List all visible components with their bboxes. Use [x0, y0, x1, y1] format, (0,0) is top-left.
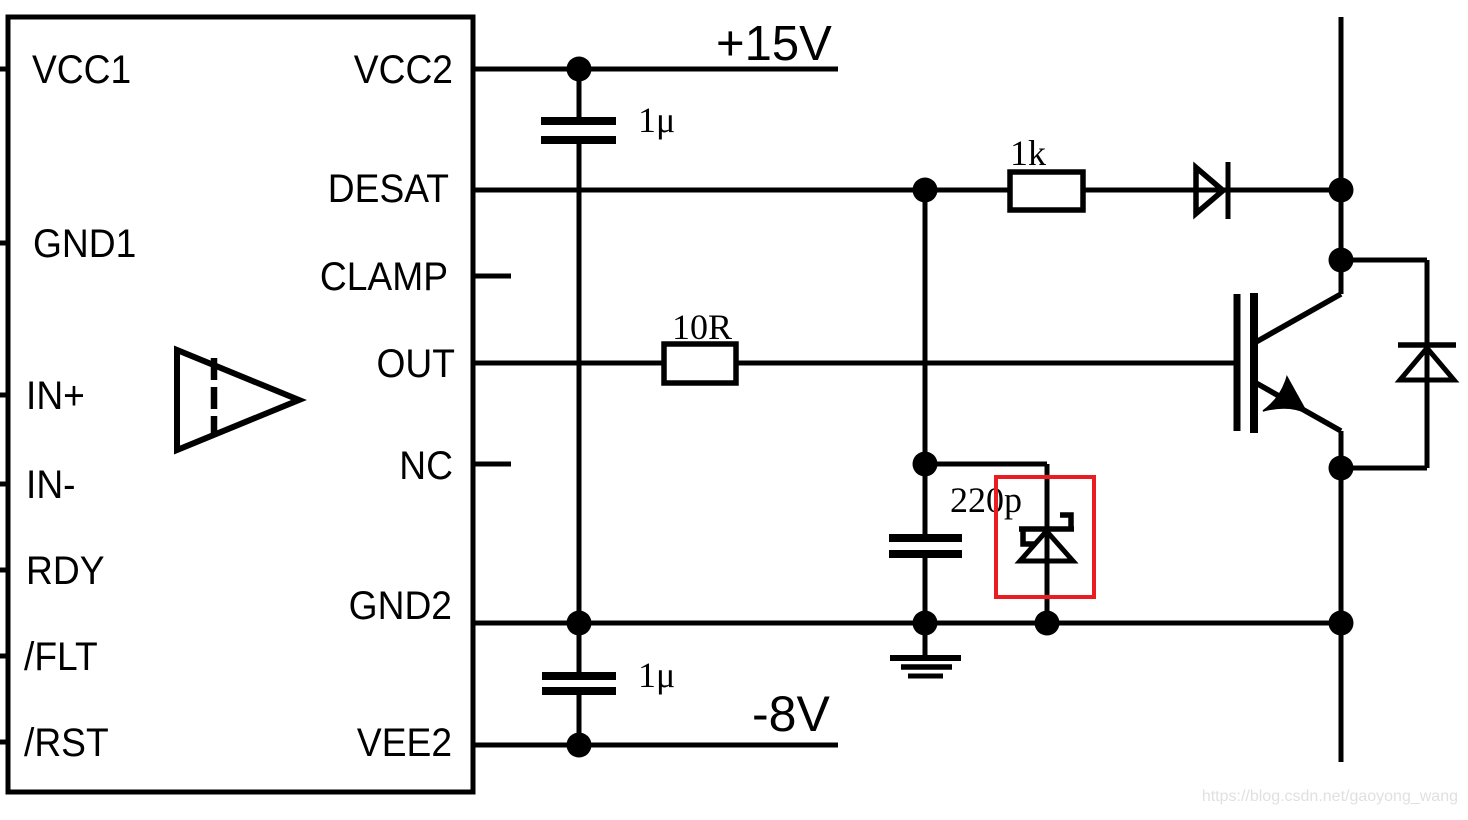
pin stub /FLT — [0, 654, 8, 659]
svg-text:OUT: OUT — [377, 342, 455, 387]
op-amp triangle inside U1 — [177, 350, 299, 450]
svg-text:IN+: IN+ — [26, 374, 85, 419]
pin stub CLAMP — [473, 274, 511, 279]
wire DESAT node down — [923, 190, 928, 464]
pin label GND1 — [33, 222, 136, 267]
pin label VEE2 — [357, 721, 452, 766]
svg-text:GND2: GND2 — [349, 584, 452, 629]
capacitor C2 plates — [889, 538, 962, 554]
svg-text:1k: 1k — [1010, 133, 1046, 173]
net label -8V — [752, 686, 830, 742]
svg-text:GND1: GND1 — [33, 222, 136, 267]
pin label NC — [399, 444, 453, 489]
node dot GND2/C2 — [913, 611, 938, 636]
value label 10R — [672, 307, 732, 347]
wire GND2 rail — [473, 621, 1341, 626]
svg-text:VEE2: VEE2 — [357, 721, 452, 766]
net label +15V — [716, 17, 832, 71]
svg-text:1μ: 1μ — [638, 100, 675, 140]
pin label VCC1 — [32, 48, 131, 93]
zener diode Z1 — [1019, 515, 1074, 561]
svg-text:VCC1: VCC1 — [32, 48, 131, 93]
value label 1k — [1010, 133, 1046, 173]
node dot DESAT diode / collector rail — [1329, 178, 1354, 203]
pin stub VCC1 — [0, 67, 8, 72]
node dot emitter — [1329, 456, 1354, 481]
svg-text:CLAMP: CLAMP — [320, 255, 448, 300]
pin label CLAMP — [320, 255, 448, 300]
pin stub NC — [473, 462, 511, 467]
svg-text:NC: NC — [399, 444, 453, 489]
capacitor C1 plates — [541, 121, 616, 140]
svg-text:10R: 10R — [672, 307, 732, 347]
pin label IN+ — [26, 374, 85, 419]
wire DESAT — [473, 188, 1010, 193]
svg-text:220p: 220p — [950, 480, 1022, 520]
node dot VCC2/C1 junction — [567, 57, 592, 82]
IGBT Q1 — [1237, 293, 1341, 433]
pin stub GND1 — [0, 241, 8, 246]
pin label DESAT — [328, 167, 449, 212]
wire VEE2 to -8V rail — [473, 743, 838, 748]
pin label /RST — [24, 721, 109, 766]
pin label IN- — [26, 463, 76, 508]
svg-text:/RST: /RST — [24, 721, 109, 766]
pin label OUT — [377, 342, 455, 387]
value label 1u (bottom) — [638, 655, 675, 695]
value label 1u (top) — [638, 100, 675, 140]
wire OUT to gate — [473, 361, 1235, 366]
node dot blanking cap top — [913, 452, 938, 477]
resistor R2 1k — [1010, 172, 1083, 210]
red highlight box around zener — [996, 477, 1094, 597]
svg-text:-8V: -8V — [752, 686, 830, 742]
resistor R1 10R — [664, 344, 736, 383]
wire to zener branch — [925, 464, 1047, 623]
node dot DESAT/blanking junction — [913, 178, 938, 203]
svg-text:RDY: RDY — [26, 549, 105, 594]
collector rail vertical — [1339, 17, 1344, 762]
wire emitter to freewheel diode bottom — [1341, 466, 1427, 471]
wire VCC2 to +15V rail — [473, 67, 838, 72]
capacitor C3 1u leads — [577, 623, 582, 745]
freewheel diode D2 — [1398, 345, 1456, 380]
node dot GND2/zener — [1035, 611, 1060, 636]
capacitor C1 1u leads — [577, 69, 582, 623]
pin stub IN- — [0, 482, 8, 487]
svg-text:1μ: 1μ — [638, 655, 675, 695]
pin label RDY — [26, 549, 105, 594]
wire 1k to diode — [1083, 188, 1341, 193]
svg-text:DESAT: DESAT — [328, 167, 449, 212]
svg-text:+15V: +15V — [716, 17, 832, 71]
pin label GND2 — [349, 584, 452, 629]
watermark — [1202, 788, 1458, 805]
node dot GND2/C1 — [567, 611, 592, 636]
pin stub /RST — [0, 740, 8, 745]
svg-text:IN-: IN- — [26, 463, 76, 508]
ground symbol — [890, 623, 961, 676]
value label 220p — [950, 480, 1022, 520]
capacitor C2 leads — [923, 464, 928, 623]
pin label VCC2 — [354, 48, 453, 93]
IC U1 gate-driver box — [8, 17, 473, 792]
pin label /FLT — [24, 635, 98, 680]
node dot GND2/emitter rail — [1329, 611, 1354, 636]
wire collector to freewheel diode top — [1341, 260, 1427, 468]
node dot VEE2/C3 — [567, 733, 592, 758]
svg-text:/FLT: /FLT — [24, 635, 98, 680]
svg-text:VCC2: VCC2 — [354, 48, 453, 93]
svg-text:https://blog.csdn.net/gaoyong_: https://blog.csdn.net/gaoyong_wang — [1202, 788, 1458, 805]
pin stub IN+ — [0, 393, 8, 398]
pin stub RDY — [0, 568, 8, 573]
node dot collector — [1329, 248, 1354, 273]
diode D1 — [1196, 162, 1228, 219]
capacitor C3 plates — [542, 676, 616, 691]
